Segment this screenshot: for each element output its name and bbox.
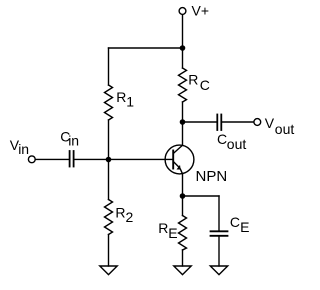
- svg-text:E: E: [168, 225, 177, 241]
- svg-text:out: out: [227, 136, 247, 152]
- svg-text:in: in: [68, 133, 79, 149]
- svg-text:2: 2: [126, 209, 134, 225]
- svg-text:C: C: [230, 214, 240, 230]
- svg-text:R: R: [116, 89, 126, 105]
- svg-text:in: in: [18, 141, 29, 157]
- svg-text:V+: V+: [192, 2, 210, 18]
- svg-text:out: out: [275, 121, 295, 137]
- svg-text:C: C: [200, 77, 210, 93]
- svg-text:R: R: [115, 204, 125, 220]
- svg-text:NPN: NPN: [196, 168, 228, 185]
- svg-text:C: C: [217, 131, 227, 147]
- svg-text:R: R: [158, 220, 168, 236]
- svg-text:V: V: [265, 115, 275, 131]
- svg-text:E: E: [240, 219, 249, 235]
- svg-text:R: R: [188, 72, 198, 88]
- svg-text:1: 1: [126, 94, 134, 110]
